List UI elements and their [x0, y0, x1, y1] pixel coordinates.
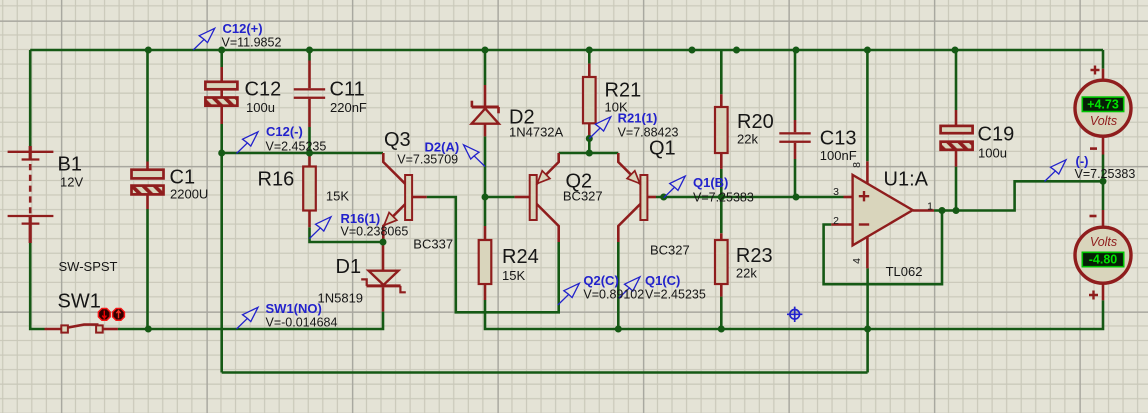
svg-text:V=0.238065: V=0.238065 [341, 225, 409, 239]
svg-text:15K: 15K [502, 268, 525, 283]
svg-text:1: 1 [927, 201, 933, 213]
svg-text:3: 3 [833, 186, 839, 198]
svg-text:1N4732A: 1N4732A [509, 125, 564, 140]
svg-text:V=2.45235: V=2.45235 [645, 288, 706, 302]
svg-text:R16: R16 [258, 169, 295, 191]
svg-text:U1:A: U1:A [884, 169, 929, 191]
svg-text:4: 4 [851, 258, 863, 264]
svg-text:SW1: SW1 [58, 291, 101, 313]
svg-text:V=7.35709: V=7.35709 [397, 153, 458, 167]
svg-text:Q1: Q1 [649, 138, 676, 160]
svg-text:22k: 22k [737, 132, 758, 147]
svg-text:V=11.9852: V=11.9852 [222, 36, 282, 50]
svg-text:2200U: 2200U [170, 187, 208, 202]
svg-text:BC337: BC337 [413, 237, 453, 252]
svg-text:SW-SPST: SW-SPST [59, 259, 118, 274]
svg-text:2: 2 [833, 215, 839, 227]
svg-text:-4.80: -4.80 [1089, 253, 1118, 267]
svg-text:1N5819: 1N5819 [318, 291, 364, 306]
svg-text:C12(+): C12(+) [223, 21, 263, 36]
svg-text:SW1(NO): SW1(NO) [266, 301, 322, 316]
svg-text:BC327: BC327 [563, 189, 603, 204]
svg-text:R21(1): R21(1) [618, 111, 658, 126]
svg-text:C12(-): C12(-) [266, 124, 303, 139]
svg-text:22k: 22k [736, 266, 757, 281]
svg-text:V=7.25383: V=7.25383 [693, 191, 754, 205]
svg-text:BC327: BC327 [650, 243, 690, 258]
svg-text:C12: C12 [245, 79, 282, 101]
svg-text:Volts: Volts [1090, 235, 1117, 249]
svg-text:R24: R24 [502, 246, 539, 268]
svg-text:220nF: 220nF [330, 100, 367, 115]
svg-text:Q3: Q3 [384, 129, 411, 151]
svg-text:R23: R23 [736, 245, 773, 267]
svg-text:100u: 100u [246, 100, 275, 115]
svg-text:Volts: Volts [1090, 114, 1117, 128]
svg-text:V=2.45235: V=2.45235 [266, 140, 327, 154]
svg-text:C1: C1 [170, 167, 196, 189]
svg-text:D1: D1 [336, 256, 362, 278]
svg-text:V=0.89102: V=0.89102 [583, 288, 644, 302]
svg-text:R20: R20 [737, 111, 774, 133]
svg-text:B1: B1 [58, 154, 82, 176]
svg-text:+4.73: +4.73 [1087, 97, 1119, 111]
svg-text:C11: C11 [330, 79, 365, 101]
svg-text:100nF: 100nF [820, 148, 857, 163]
svg-text:R21: R21 [605, 80, 642, 102]
svg-text:Q1(C): Q1(C) [645, 273, 680, 288]
svg-text:100u: 100u [978, 146, 1007, 161]
svg-text:C13: C13 [820, 128, 857, 150]
svg-text:Q2(C): Q2(C) [583, 273, 618, 288]
svg-text:V=-0.014684: V=-0.014684 [266, 316, 338, 330]
svg-text:12V: 12V [60, 175, 83, 190]
svg-text:Q1(B): Q1(B) [693, 175, 728, 190]
svg-text:V=7.25383: V=7.25383 [1075, 167, 1136, 181]
svg-text:TL062: TL062 [886, 264, 923, 279]
svg-text:8: 8 [851, 162, 863, 168]
svg-text:V=7.88423: V=7.88423 [618, 126, 679, 140]
svg-text:15K: 15K [326, 189, 349, 204]
svg-text:C19: C19 [978, 124, 1015, 146]
